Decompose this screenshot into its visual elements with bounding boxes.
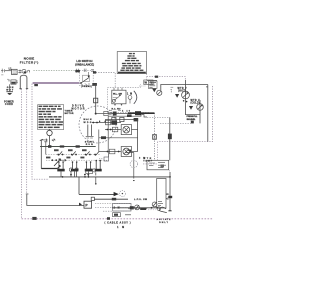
dashed wire C with corner at purple line [32,84,49,180]
svg-text:MOTOR: MOTOR [65,113,74,115]
svg-text:CORD: CORD [5,104,13,106]
thermostat cluster [147,80,162,95]
centrifugal switch squiggle [148,207,167,213]
svg-text:(UNBAL): (UNBAL) [81,85,92,88]
node L1 terminal ticks [1,69,5,75]
bus junction dots [62,176,90,178]
wire L1 input [5,70,12,72]
dashed drop from thick wire [154,113,156,160]
purple wire to lid switch [33,82,80,84]
notes list block [38,105,64,130]
svg-text:L.P.S. SW: L.P.S. SW [134,199,148,201]
ground symbol [6,92,12,95]
power cord plug body [7,79,18,84]
junction blob lid switch top [75,70,80,72]
label timer motor [65,110,74,115]
temp sensor dashed circle [125,150,145,181]
inline connector [168,134,172,140]
timer contact pair 2 [71,161,78,171]
dashed border top right [147,77,186,81]
svg-text:WDG: WDG [84,122,92,124]
wire console row [40,146,96,148]
power cord loop [20,75,27,89]
block lower stub [99,152,109,162]
tall chassis box [157,179,166,209]
level switch aux contact 1M [127,94,132,104]
wire row y113 [103,111,154,115]
svg-text:LID SWITCH: LID SWITCH [76,59,92,63]
water valve hot label [178,88,187,93]
note box [117,52,146,74]
cabinet dashed right side [158,86,213,142]
svg-text:1M: 1M [117,226,124,229]
timer frame left [40,140,42,169]
svg-text:MAIN: MAIN [84,118,92,121]
water level switch dashed box [108,87,141,112]
wire tag blob [34,84,38,86]
valve manifold wire [186,114,201,116]
svg-text:MOTOR: MOTOR [72,107,85,110]
wire thermostat to right rail [161,85,208,91]
svg-text:P: P [85,204,88,208]
timer contact pair 3 [85,161,92,171]
bottom blob left [32,217,36,220]
timer feed stub [44,141,47,154]
cabinet dashed jog [143,142,158,164]
wire row y122 [92,120,121,125]
dashed stub y211 [103,210,127,212]
svg-text:POWER: POWER [4,101,14,103]
right rail of solenoid block [137,120,139,152]
stub below bus [95,177,97,183]
dashed stub under valve label [139,84,146,87]
label: NOISE FILTER [20,57,39,65]
fuse link marks [18,70,21,74]
hot valve solenoid [175,80,189,115]
lid switch contacts [77,69,97,86]
defs [1,52,213,229]
arrow to capacitor [114,191,126,197]
water valve cold label [191,100,200,105]
ground wire [9,84,11,91]
cabinet dashed wire left B [26,89,28,194]
wire valve return left [169,117,171,160]
label cable assy [105,222,131,229]
bottom blob mid [107,217,110,220]
svg-text:START: START [85,141,95,144]
switch circle B [151,202,159,209]
BU wire [165,170,172,211]
main lower bus [49,176,170,178]
svg-text:( CABLE ASSY ): ( CABLE ASSY ) [105,222,131,225]
lid switch output wire down [95,84,97,114]
bottom wire marks [128,208,148,210]
contact base ticks [61,171,89,177]
svg-text:(UNBALANCE): (UNBALANCE) [75,63,94,67]
svg-text:FILTER(*): FILTER(*) [20,61,39,65]
right rail down [206,85,208,142]
svg-text:PRESS FILL: PRESS FILL [187,116,199,118]
svg-text:ONLY: ONLY [159,222,169,224]
noise filter block FL1 [12,69,18,74]
label agitate only [157,218,172,224]
strain squiggle [27,70,30,73]
note box lower dashed stub [146,74,148,81]
svg-text:4 10: 4 10 [122,110,131,113]
vertical drop to pump bus [78,177,80,195]
label 4 marks [171,87,174,92]
timer contact pair 1 [57,161,64,171]
timer base rise [57,166,60,168]
connector plug circle [22,69,26,73]
level switch terminal labels [110,108,131,112]
valve label box [144,80,153,85]
dashed wire lid switch to corner [93,73,115,88]
switch circle A [135,205,140,210]
label LID SWITCH [75,59,94,67]
water temp switch label [143,158,153,163]
dashed border blob [155,76,158,78]
pump bus upper [79,193,114,195]
dashed pressure line [160,122,193,124]
cabinet dashed bottom [22,218,213,220]
wire row y119 [105,117,138,121]
motor windings [85,125,95,147]
svg-text:N.C. NO: N.C. NO [112,108,121,110]
timer cam arrow [54,159,61,166]
timer base dark line [41,168,57,170]
label WHT [6,87,14,92]
agitate solenoid row [105,125,138,135]
water temp switch box [147,160,169,170]
bus taps [69,168,96,177]
inline connector box [94,98,98,103]
pressure text rows [187,116,199,123]
pump dashed tail [95,207,131,209]
dashed link y117 [147,116,170,118]
dashed wire to lid switch [33,70,75,72]
pump bus lower [91,197,128,200]
cold valve solenoid [189,100,203,123]
wire level box lower [108,115,147,117]
inline connector outline [153,135,157,140]
motor circle [72,105,117,143]
neutral return wire [26,194,84,205]
console lamp [41,129,55,147]
lower cluster box [95,203,131,211]
motor node junction [95,113,104,115]
svg-text:W.L. SW: W.L. SW [113,93,123,95]
spin solenoid row [99,147,138,157]
timer contact row lower [46,159,107,161]
timer contact row upper [46,151,100,155]
lower bus right [112,207,158,209]
cabinet dashed wire left A [21,89,23,219]
svg-text:TIMER: TIMER [65,110,73,112]
label POWER CORD [4,101,14,106]
solenoid block link wires [99,130,138,152]
svg-text:RUN: RUN [86,144,93,146]
timer contact pair 4 [95,160,102,172]
diaphragm arc [134,91,137,104]
lid switch box dashed [79,71,93,86]
water level switch body [112,88,126,106]
svg-text:TEMP: TEMP [143,160,153,162]
timer cam labels [46,149,87,158]
pump motor box [79,201,92,208]
junction blob [93,71,96,73]
